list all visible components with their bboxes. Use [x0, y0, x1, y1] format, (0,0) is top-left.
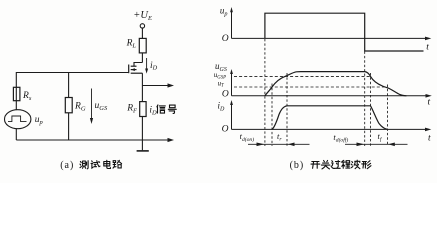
node dashed vertical t1 [264, 39, 266, 146]
wire source to RF [141, 73, 143, 101]
axis iD vertical [231, 104, 233, 130]
svg-text:RF: RF [126, 104, 138, 115]
hanzi hao [168, 105, 176, 113]
svg-text:uGS: uGS [95, 101, 108, 112]
node dim arrow right 2 [357, 143, 365, 147]
ground [137, 150, 149, 152]
axis uGS horizontal t [232, 95, 427, 97]
node dim arrow left 2 [388, 143, 395, 147]
hanzi guo [331, 161, 340, 169]
node arrow t axis iD [425, 128, 431, 132]
axis uGS vertical [231, 73, 233, 96]
wire RF bottom to ground [141, 117, 143, 151]
hanzi ce [80, 161, 88, 169]
svg-text:up: up [220, 6, 228, 18]
curve uGS [265, 72, 407, 96]
hanzi dian [104, 160, 111, 168]
svg-text:iD: iD [218, 101, 226, 113]
axis arrowheads [230, 7, 432, 146]
resistor RF [140, 102, 146, 117]
hanzi guan [321, 161, 329, 169]
svg-text:O: O [222, 125, 229, 135]
hanzi kai [311, 162, 320, 169]
wire dim line turn-on [248, 143, 310, 145]
node arrow up axis uGS [230, 69, 233, 74]
svg-text:td(off): td(off) [333, 132, 348, 144]
curve iD [272, 106, 388, 130]
node dashed vertical t3 [286, 73, 288, 146]
node dashed vertical t2 [271, 84, 273, 147]
svg-text:O: O [222, 34, 229, 44]
node dim arrow left 1 [288, 143, 295, 147]
hanzi lu [113, 160, 122, 168]
svg-text:(a): (a) [60, 160, 74, 171]
hanzi cheng [341, 160, 350, 168]
axis up vertical [231, 11, 233, 38]
curve up pulse [265, 13, 424, 51]
wire bottom rail [15, 129, 17, 140]
svg-text:iD: iD [150, 61, 158, 72]
hanzi shi [91, 161, 100, 168]
svg-text:tr: tr [277, 131, 282, 143]
node bottom terminal arrow [168, 138, 175, 142]
svg-text:iD: iD [149, 106, 157, 117]
svg-text:uT: uT [218, 79, 225, 88]
svg-text:t: t [428, 133, 431, 143]
svg-text:+UE: +UE [133, 10, 152, 22]
node iD arrow at drain [146, 58, 148, 69]
wire dim line turn-off [345, 143, 408, 145]
node arrow t axis uGS [426, 94, 432, 98]
node arrow up axis up [230, 7, 233, 12]
svg-text:up: up [35, 115, 44, 126]
pulse waveform symbol inside source [8, 116, 27, 122]
svg-text:O: O [222, 90, 229, 100]
wire top rail gate net [16, 73, 128, 111]
resistor RL [139, 38, 146, 53]
node dim arrow right 1 [257, 143, 265, 147]
resistor Rs [13, 87, 20, 100]
axis iD horizontal t [232, 128, 427, 130]
node dashed vertical t6 [387, 85, 389, 147]
svg-text:RL: RL [126, 39, 137, 50]
svg-text:t: t [426, 43, 429, 53]
hanzi bo [351, 160, 360, 169]
svg-text:Rs: Rs [22, 91, 32, 102]
svg-text:tf: tf [378, 131, 383, 143]
hanzi xin [157, 105, 165, 113]
node dashed vertical t4 [364, 52, 366, 147]
power +UE terminal [140, 24, 144, 28]
hanzi xing [362, 161, 371, 169]
level uT dashed [234, 86, 388, 88]
svg-text:td(on): td(on) [240, 131, 255, 143]
node arrow t axis up [425, 37, 431, 41]
svg-text:RG: RG [74, 101, 86, 112]
source up (pulse generator) [5, 110, 31, 129]
node output terminal arrow top [142, 85, 167, 87]
node arrow up axis iD [230, 100, 233, 105]
svg-text:(b): (b) [290, 160, 305, 171]
svg-text:t: t [428, 98, 431, 108]
node dashed vertical t5 [370, 73, 372, 146]
transistor V (power MOSFET) [134, 63, 142, 67]
level uGSP dashed [234, 75, 371, 77]
node uGS arrow [91, 89, 93, 119]
resistor RG [68, 73, 70, 98]
axis up horizontal t [232, 37, 427, 39]
